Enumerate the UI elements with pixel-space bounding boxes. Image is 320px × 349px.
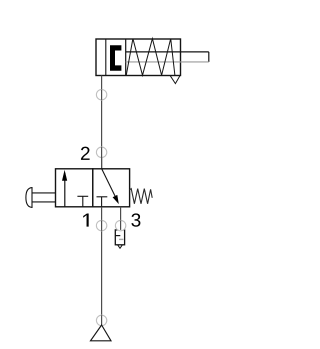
pushbutton actuator <box>26 188 56 208</box>
node circle on port 1 wire <box>96 220 106 230</box>
piston <box>125 39 127 76</box>
piston rod <box>126 52 209 62</box>
label 1 <box>83 214 88 227</box>
silencer body <box>115 230 124 245</box>
wire valve port 3 to silencer <box>120 207 122 226</box>
wire valve port 1 to air supply <box>101 207 103 325</box>
node circle valve port 2 <box>96 147 106 157</box>
wire cylinder port to valve port 2 <box>101 76 103 169</box>
valve left box blocked port T <box>77 196 88 207</box>
silencer exhaust V <box>118 245 123 249</box>
wire through port 2 node <box>101 147 103 169</box>
valve left box flow arrow (1 to 2) <box>62 170 67 207</box>
wire through node <box>101 90 103 100</box>
piston seal bracket <box>110 45 121 71</box>
valve return spring <box>130 189 153 204</box>
valve left position box <box>56 169 93 207</box>
silencer inner line lower <box>119 238 123 240</box>
compressed air supply triangle <box>91 325 112 341</box>
wire through supply node <box>101 315 103 325</box>
node circle at air supply <box>96 315 106 325</box>
valve right box blocked port T (port 1) <box>97 197 108 207</box>
silencer inner line upper <box>115 235 120 237</box>
valve right position box <box>93 169 130 207</box>
wire through port1 node <box>101 220 103 230</box>
cylinder return spring <box>126 39 175 76</box>
wire through silencer node <box>120 220 122 230</box>
cylinder left cap inner wall <box>105 39 107 76</box>
cylinder body (single-acting cylinder) <box>96 39 181 76</box>
cylinder vent notch <box>170 76 180 84</box>
node circle below cylinder <box>96 90 106 100</box>
label 2 <box>81 147 90 160</box>
silencer node circle <box>115 220 125 230</box>
valve right box exhaust arrow (2 to 3) <box>102 169 119 204</box>
label 3 <box>131 213 140 226</box>
